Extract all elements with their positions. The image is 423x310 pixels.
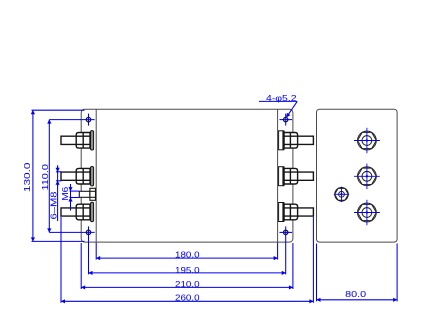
svg-text:4-φ5.2: 4-φ5.2 bbox=[266, 93, 297, 103]
svg-text:130.0: 130.0 bbox=[22, 162, 32, 192]
svg-text:195.0: 195.0 bbox=[175, 265, 200, 275]
svg-text:M6: M6 bbox=[60, 186, 70, 200]
svg-text:80.0: 80.0 bbox=[345, 289, 366, 299]
svg-text:6–M8: 6–M8 bbox=[48, 191, 58, 219]
svg-text:110.0: 110.0 bbox=[40, 164, 50, 191]
svg-text:260.0: 260.0 bbox=[175, 293, 200, 303]
svg-text:210.0: 210.0 bbox=[175, 279, 200, 289]
svg-text:180.0: 180.0 bbox=[175, 249, 200, 259]
